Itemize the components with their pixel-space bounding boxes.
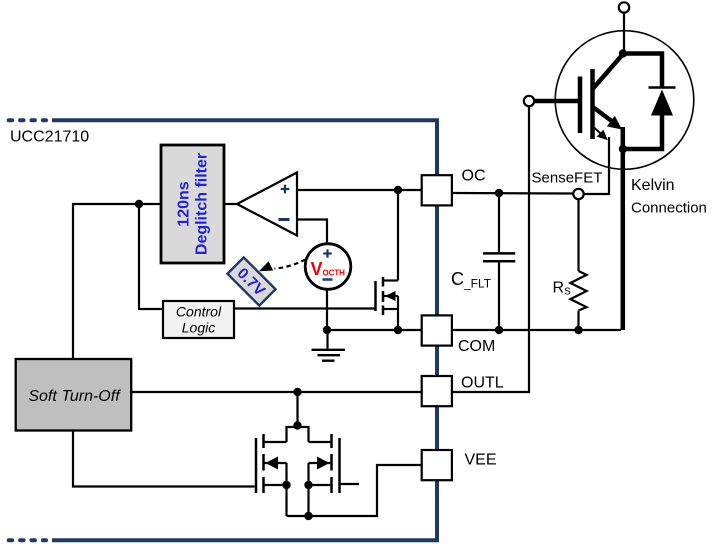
transistor Q1 (external IGBT with sense emitter)	[534, 31, 694, 330]
wire soft turn-off to Q2 gate	[73, 431, 255, 487]
junction dot emitter node	[619, 145, 627, 153]
junction dot collector node	[619, 49, 627, 57]
terminal SenseFET	[573, 189, 583, 199]
transistor Q3 (right output FET)	[309, 434, 360, 516]
junction dot output stage on OUTL wire	[293, 388, 301, 396]
wire collector to top terminal	[623, 13, 625, 54]
junction dot Vocth at ground rail	[323, 326, 331, 334]
op-amp comparator U1	[237, 173, 297, 236]
soft turn-off block	[16, 359, 132, 431]
wire control logic to M1 gate	[234, 307, 375, 309]
svg-text:Kelvin: Kelvin	[631, 177, 675, 194]
svg-text:COM: COM	[458, 338, 495, 355]
svg-text:Logic: Logic	[182, 320, 215, 336]
junction dot C_FLT bottom	[495, 326, 503, 334]
svg-text:OUTL: OUTL	[461, 375, 504, 392]
wire OUTL to gate terminal	[453, 107, 529, 393]
wire deglitch filter output to left node	[73, 203, 161, 205]
svg-text:SenseFET: SenseFET	[532, 170, 603, 187]
label C_FLT	[451, 269, 492, 291]
wire OC pin to SenseFET terminal	[453, 192, 574, 195]
svg-text:120ns: 120ns	[176, 181, 193, 226]
svg-text:Soft Turn-Off: Soft Turn-Off	[28, 388, 121, 405]
terminal collector top	[619, 2, 629, 12]
capacitor C_FLT	[483, 193, 515, 330]
svg-text:Control: Control	[176, 304, 222, 320]
junction dot M1 drain on OC wire	[394, 186, 402, 194]
pin VEE	[422, 450, 497, 480]
node A junction dot	[135, 200, 143, 208]
control logic block	[163, 301, 234, 338]
wire sense emitter to SenseFET terminal	[584, 137, 610, 194]
resistor RS	[570, 199, 586, 330]
dashed arrow Vocth to 0.7V tag	[259, 260, 305, 272]
voltage source V_OCTH	[305, 244, 351, 290]
svg-text:Deglitch filter: Deglitch filter	[194, 153, 211, 255]
wire left node down to Soft Turn-Off	[72, 203, 74, 359]
pin OUTL	[422, 375, 504, 407]
wire ground rail to COM pin	[327, 329, 421, 331]
transistor Q2 (left output FET)	[256, 434, 287, 516]
svg-text:UCC21710: UCC21710	[10, 129, 89, 146]
wire comparator minus input to Vocth	[297, 220, 327, 246]
wire comparator plus input to OC pin	[297, 189, 421, 191]
transistor M1 (NMOS pulldown)	[376, 190, 399, 330]
label Kelvin Connection	[631, 177, 707, 217]
junction dot Q3 source	[304, 481, 312, 489]
wire Vocth bottom to ground rail	[326, 289, 328, 330]
wire drain tee to both FETs	[287, 427, 309, 442]
label 0.7V threshold tag	[227, 257, 275, 305]
svg-text:OC: OC	[462, 168, 486, 185]
pin COM	[422, 315, 496, 355]
wire node A down to Control Logic	[139, 204, 163, 309]
junction dot FET drain node	[293, 421, 301, 429]
junction dot source rail	[304, 512, 312, 520]
label UCC21710	[10, 129, 89, 146]
wire comparator output to deglitch filter	[224, 203, 238, 205]
wire OUTL node down to output FET drains	[296, 392, 298, 426]
deglitch filter block 120ns	[161, 145, 224, 263]
diode D1 (antiparallel)	[623, 54, 676, 150]
label SenseFET	[532, 170, 603, 187]
device boundary UCC21710 (dashed blue border)	[9, 120, 437, 540]
terminal gate	[524, 96, 534, 106]
label RS	[553, 280, 572, 298]
svg-text:VEE: VEE	[465, 452, 497, 469]
pin OC	[422, 168, 486, 206]
junction dot Q2 source	[282, 481, 290, 489]
wire source rail to VEE pin	[287, 465, 422, 516]
wire COM pin to kelvin emitter	[453, 329, 621, 331]
svg-text:Connection: Connection	[631, 200, 707, 217]
ground	[312, 330, 346, 361]
junction dot M1 source on ground rail	[394, 326, 402, 334]
junction dot Rs bottom	[574, 326, 582, 334]
wire Soft Turn-Off to OUTL pin	[131, 391, 421, 393]
junction dot C_FLT top	[495, 189, 503, 197]
